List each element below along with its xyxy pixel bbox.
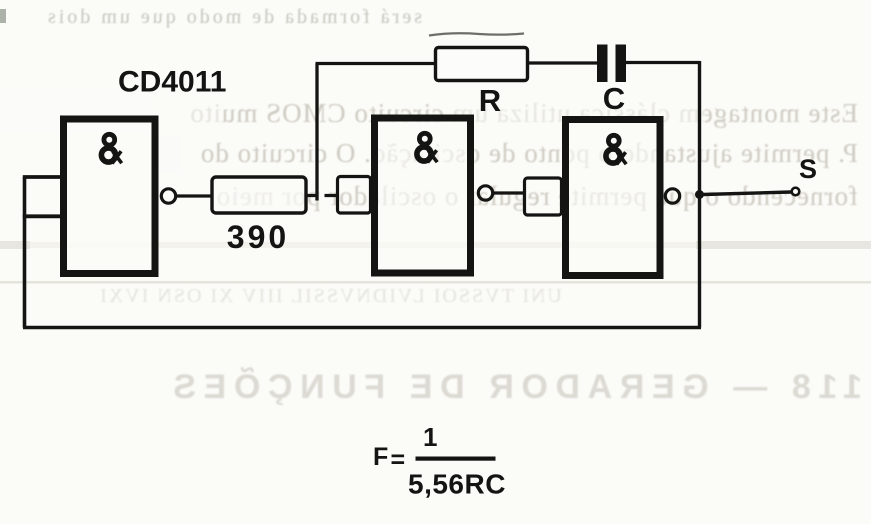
- svg-text:P. permite ajustando o ponto d: P. permite ajustando o ponto de oscilaçã…: [200, 138, 858, 168]
- svg-text:F: F: [373, 443, 388, 471]
- wire bubble1 to resistor 390: [176, 194, 211, 197]
- capacitor C plate 2: [616, 45, 627, 83]
- bleed-through title 118 GERADOR DE FUNÇÕES (mirrored): [166, 368, 862, 406]
- bleed-through corner mark: [0, 9, 6, 23]
- inverter bubble U1c: [665, 189, 679, 203]
- inverter bubble U1a: [161, 189, 175, 203]
- wire right rail: [698, 61, 701, 328]
- wire R to C: [528, 61, 598, 64]
- output terminal S: [792, 188, 800, 196]
- gate U1c input box: [525, 178, 562, 215]
- formula F = 1 / 5,56RC: [373, 422, 506, 500]
- gate U1b input box: [338, 177, 371, 214]
- svg-text:CD4011: CD4011: [118, 66, 226, 99]
- wire C to right rail: [626, 61, 700, 64]
- bleed-through band right: [696, 241, 871, 249]
- wire left rail: [23, 177, 27, 328]
- formula fraction bar: [416, 457, 496, 461]
- wire gate1 input pin bottom: [23, 214, 60, 218]
- bottom feedback wire: [23, 326, 701, 329]
- bleed-through top line: [45, 6, 422, 28]
- erased area over bleed text: [455, 94, 705, 130]
- svg-text:UNI TVSSOI LVIDNVSSIL IIIV XI: UNI TVSSOI LVIDNVSSIL IIIV XI OSN IVXI: [98, 285, 562, 307]
- bleed-through band left: [0, 241, 30, 249]
- svg-text:R: R: [479, 83, 501, 118]
- svg-text:390: 390: [227, 219, 289, 255]
- svg-text:=: =: [391, 446, 406, 474]
- gate U1b: [375, 118, 471, 273]
- svg-text:S: S: [799, 154, 817, 184]
- wire resistor 390 to node: [306, 194, 338, 197]
- gate U1c: [566, 120, 661, 276]
- svg-text:será formada de modo que um do: será formada de modo que um dois: [45, 6, 422, 28]
- junction at output node: [695, 190, 704, 199]
- svg-text:5,56RC: 5,56RC: [408, 469, 506, 500]
- gate U1c symbol &: [606, 135, 626, 164]
- wire bubble2 to gate3 input: [493, 191, 524, 194]
- resistor R: [436, 48, 528, 81]
- resistor 390: [212, 177, 306, 213]
- erased area over bleed text: [0, 136, 120, 172]
- svg-text:1: 1: [423, 422, 437, 452]
- wire gate1 input pin top: [23, 175, 60, 179]
- node vertical wire: [315, 64, 318, 201]
- gate U1b symbol &: [417, 133, 437, 162]
- gate U1a symbol &: [101, 134, 121, 163]
- bleed-through rule: [0, 281, 871, 284]
- bleed-through paragraph (mirrored): [189, 98, 858, 211]
- svg-text:C: C: [603, 81, 625, 116]
- svg-text:118 — GERADOR DE FUNÇÕES: 118 — GERADOR DE FUNÇÕES: [166, 368, 862, 406]
- bleed-through text row: [98, 285, 562, 307]
- capacitor C plate 1: [597, 45, 608, 83]
- bleed-through band middle faint: [30, 242, 696, 248]
- stray dark squiggle: [429, 33, 524, 35]
- wire top feedback to R: [316, 62, 436, 65]
- gate U1a: [64, 119, 156, 274]
- erased area over bleed text: [0, 94, 150, 132]
- inverter bubble U1b: [478, 186, 492, 200]
- wire to output terminal S: [703, 192, 791, 195]
